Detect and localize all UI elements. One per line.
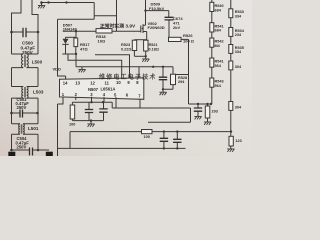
svg-text:334: 334 — [235, 15, 242, 19]
svg-text:VDD: VDD — [53, 67, 62, 72]
svg-text:684: 684 — [215, 8, 222, 12]
svg-text:L503: L503 — [33, 90, 44, 95]
svg-text:R521: R521 — [149, 43, 158, 47]
svg-text:334: 334 — [235, 50, 242, 54]
svg-text:1N4148: 1N4148 — [63, 27, 78, 32]
svg-text:R526: R526 — [183, 33, 193, 38]
svg-text:304: 304 — [235, 65, 242, 69]
svg-text:N507: N507 — [88, 87, 99, 92]
svg-text:12: 12 — [90, 81, 95, 86]
svg-text:250V: 250V — [22, 50, 34, 55]
svg-text:L6561A: L6561A — [101, 87, 116, 92]
svg-text:14: 14 — [63, 81, 68, 86]
svg-text:100 Ω: 100 Ω — [183, 38, 195, 43]
svg-text:0.22Ω: 0.22Ω — [121, 48, 131, 52]
svg-text:564: 564 — [215, 64, 222, 68]
svg-text:234: 234 — [235, 33, 242, 37]
svg-text:100: 100 — [144, 135, 150, 139]
svg-text:47Ω: 47Ω — [80, 47, 88, 52]
svg-text:正常时实测 3.9V: 正常时实测 3.9V — [100, 22, 136, 29]
svg-text:294: 294 — [178, 80, 185, 84]
svg-text:0.18Ω: 0.18Ω — [149, 48, 159, 52]
svg-text:123: 123 — [235, 139, 241, 143]
svg-text:10Ω: 10Ω — [98, 38, 106, 43]
svg-text:R528: R528 — [178, 76, 187, 80]
svg-text:R523: R523 — [121, 43, 130, 47]
svg-text:L501: L501 — [28, 126, 39, 131]
svg-text:293: 293 — [212, 110, 218, 114]
svg-text:维修电工电子技术: 维修电工电子技术 — [99, 73, 157, 81]
svg-text:13: 13 — [75, 81, 80, 86]
svg-text:M4: M4 — [215, 44, 221, 48]
svg-text:2kV: 2kV — [173, 25, 180, 30]
svg-text:100: 100 — [69, 123, 75, 127]
svg-text:11: 11 — [105, 80, 110, 85]
svg-text:684: 684 — [215, 29, 222, 33]
svg-text:250V: 250V — [17, 105, 27, 110]
svg-text:L500: L500 — [32, 60, 43, 65]
svg-text:250V: 250V — [17, 145, 27, 150]
svg-text:564: 564 — [215, 84, 222, 88]
svg-text:F20N60D: F20N60D — [148, 25, 165, 30]
svg-text:304: 304 — [235, 106, 242, 110]
svg-text:F10.5kV: F10.5kV — [149, 6, 164, 11]
